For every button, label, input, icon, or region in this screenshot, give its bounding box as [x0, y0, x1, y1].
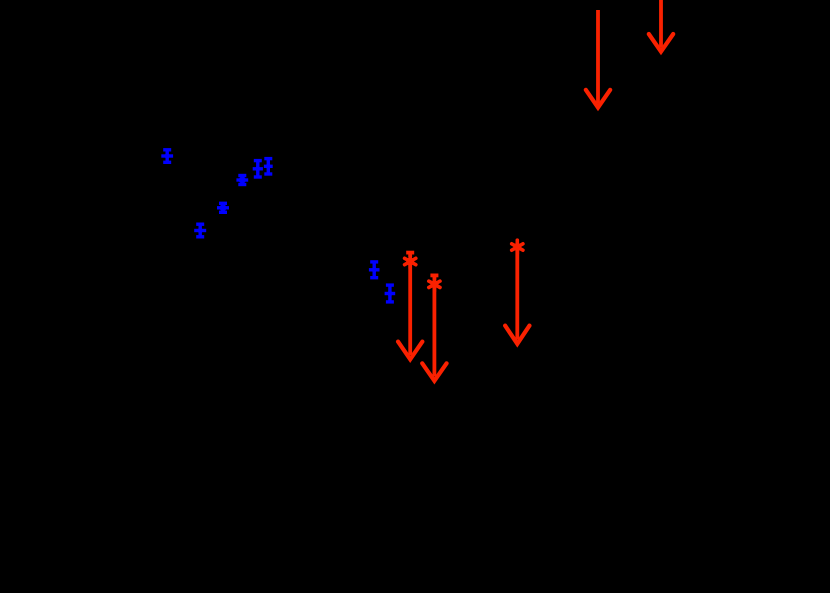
red upper-limit arrow R4 (shaft from above plot): [586, 10, 610, 108]
blue data point B2: [194, 224, 206, 237]
blue data point B1: [161, 150, 173, 163]
red upper-limit point R1 (star marker, error cap, down arrow): [398, 253, 422, 360]
red upper-limit arrow R5 (shaft clipped at top edge): [649, 0, 673, 52]
blue data point B4: [236, 176, 248, 185]
blue data point B5: [253, 161, 263, 177]
blue data point B3: [217, 203, 229, 212]
red upper-limit point R2 (star marker, error cap, down arrow): [422, 275, 446, 380]
red upper-limit point R3 (star marker, down arrow): [505, 240, 529, 344]
blue data point B6: [264, 159, 273, 174]
blue data point B8: [385, 285, 396, 302]
blue data point B7: [369, 262, 380, 278]
